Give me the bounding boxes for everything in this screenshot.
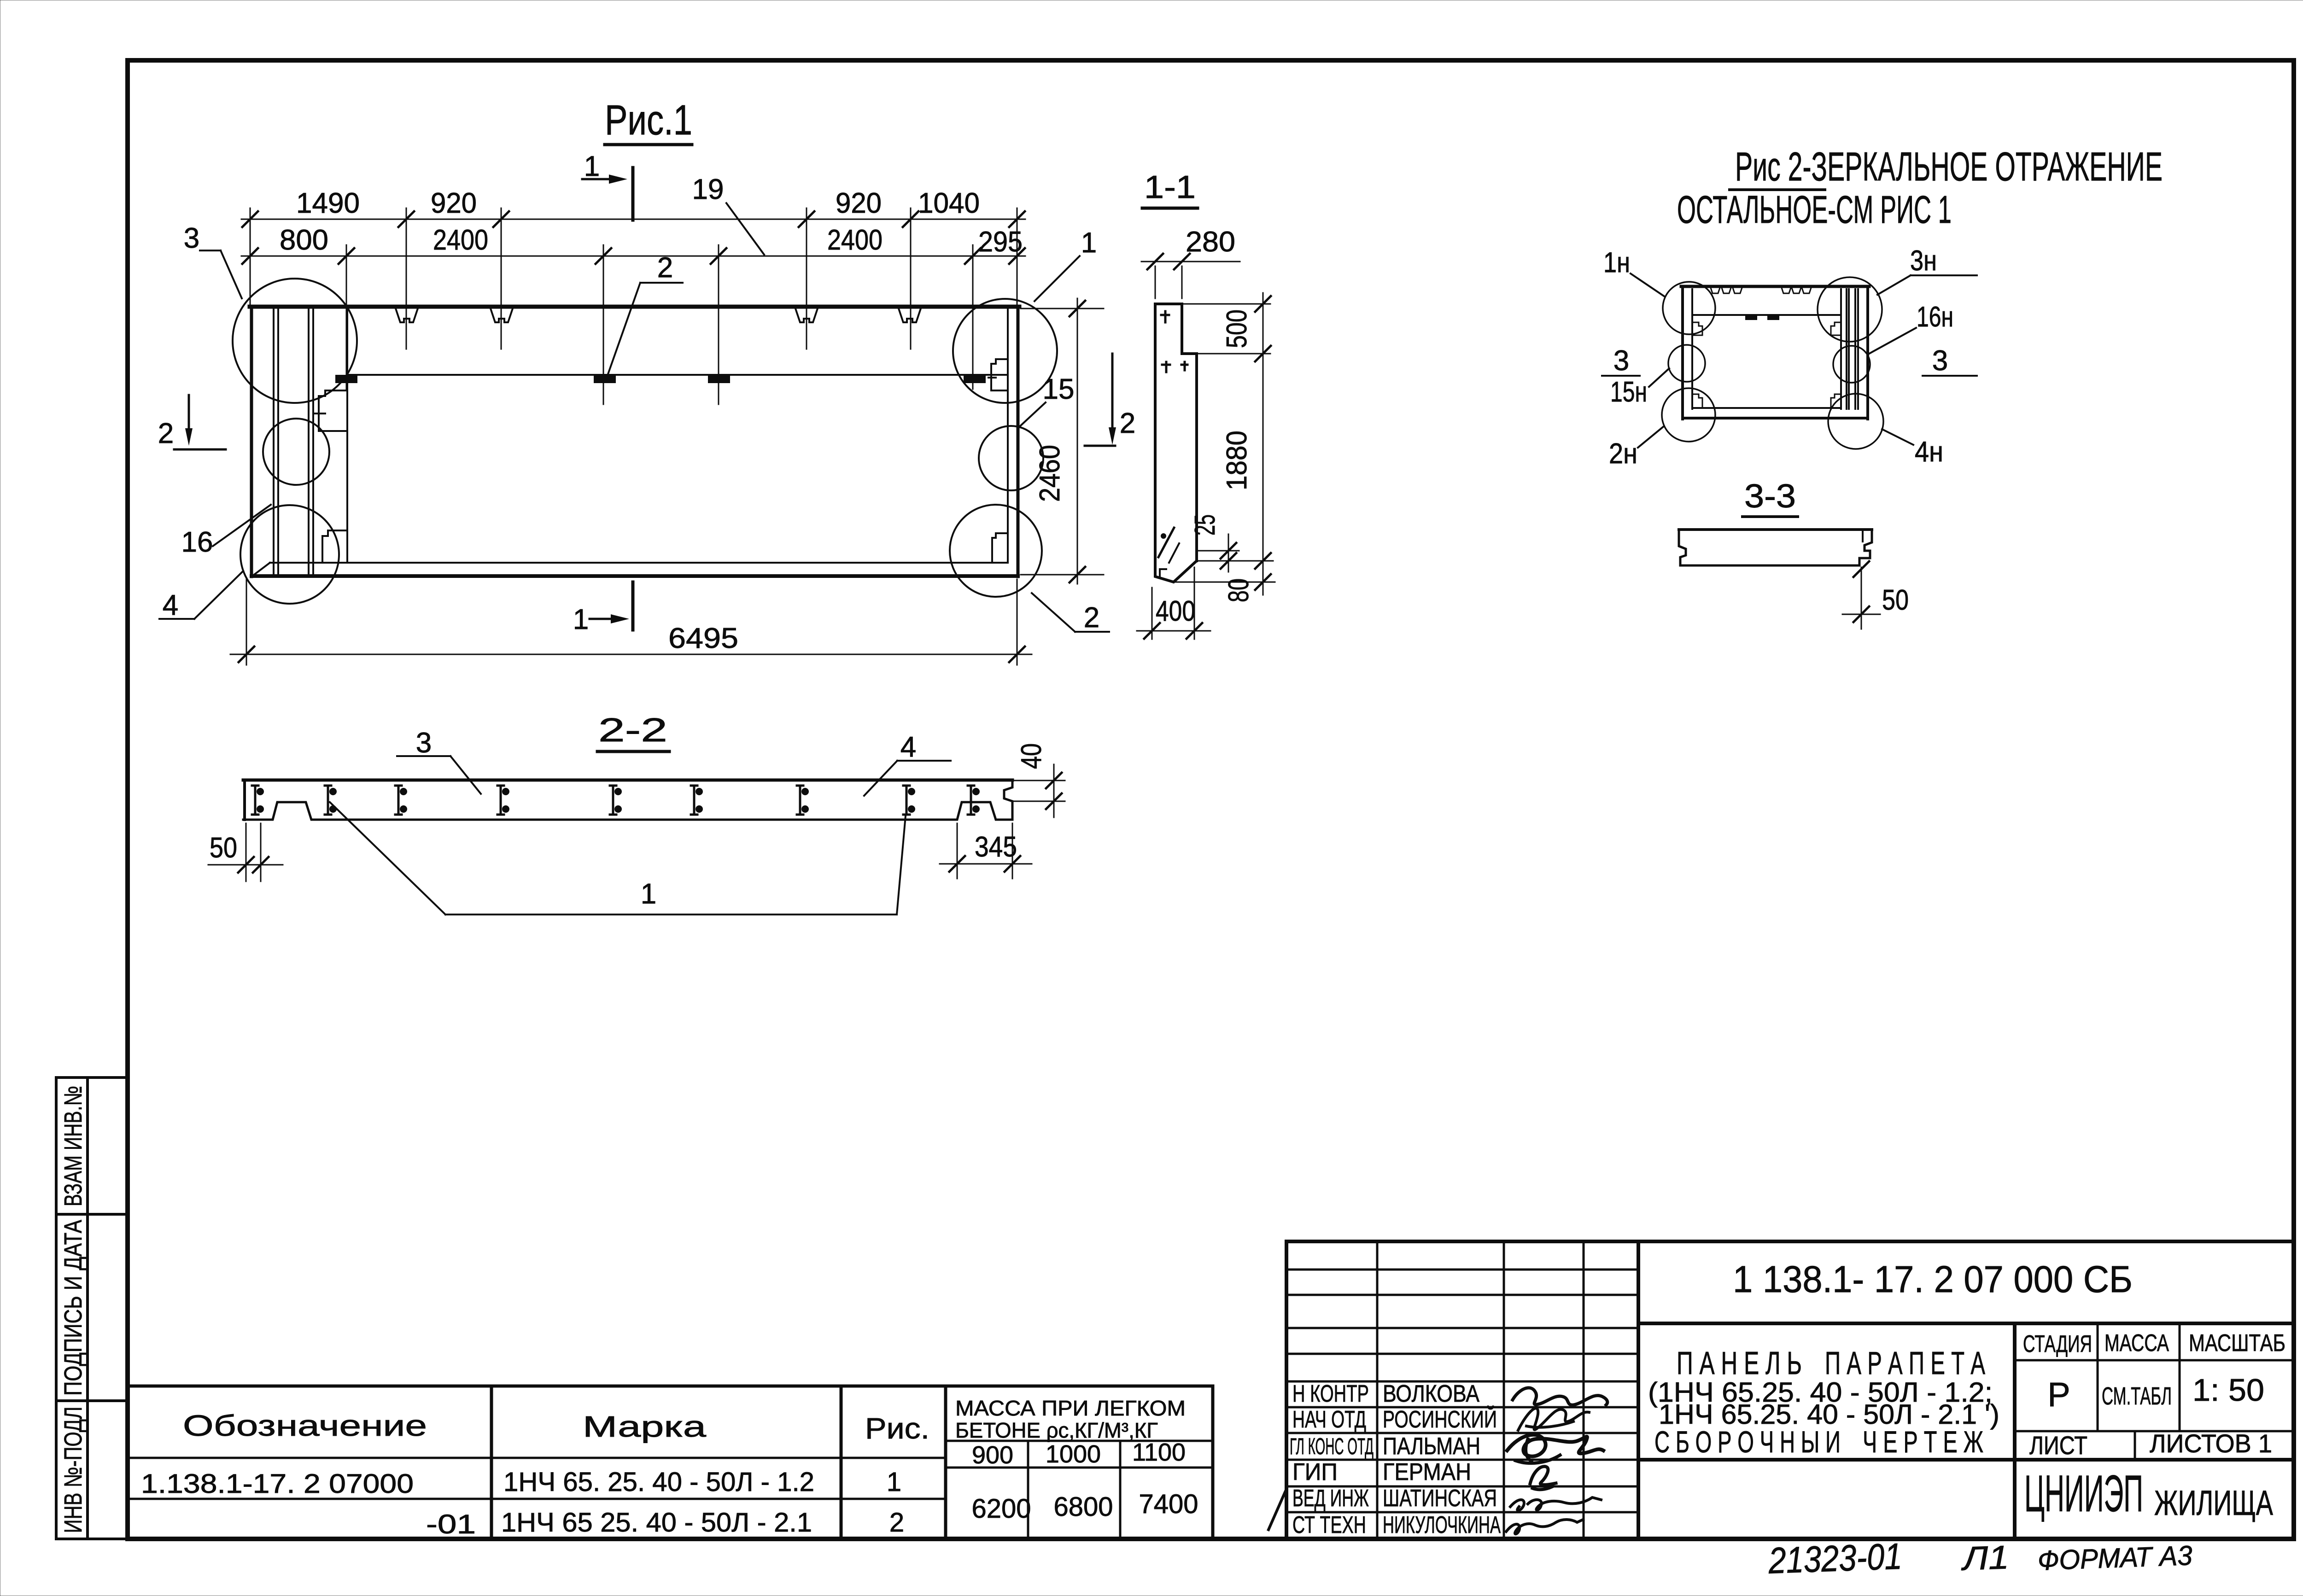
- section 1-1 profile outline: [1155, 304, 1197, 561]
- Fig.2 panel top edge: [1681, 285, 1869, 288]
- detail circle bottom-left: [240, 505, 339, 604]
- signature Волкова: [1513, 1388, 1607, 1405]
- svg-text:40: 40: [1016, 743, 1047, 769]
- svg-text:РОСИНСКИЙ: РОСИНСКИЙ: [1383, 1406, 1497, 1433]
- dim 345 (section 2-2): [957, 823, 958, 879]
- svg-text:ИНВ №-ПОДЛ: ИНВ №-ПОДЛ: [59, 1407, 87, 1533]
- dim 80: [1263, 561, 1264, 595]
- svg-text:2460: 2460: [1034, 445, 1066, 502]
- svg-text:1: 1: [887, 1467, 901, 1497]
- signature Шатинская: [1510, 1497, 1601, 1510]
- dim 50 (section 2-2): [245, 823, 247, 881]
- svg-text:ПАЛЬМАН: ПАЛЬМАН: [1383, 1433, 1480, 1460]
- svg-text:1-1: 1-1: [1144, 169, 1196, 205]
- dim 500: [1184, 303, 1270, 305]
- svg-text:НАЧ ОТД: НАЧ ОТД: [1292, 1406, 1366, 1433]
- lifting notch 4 on top edge: [899, 309, 921, 322]
- svg-text:ЛИСТ: ЛИСТ: [2029, 1431, 2087, 1460]
- Fig.2 notches on top edge: [1711, 288, 1811, 293]
- detail circle top-left: [233, 279, 357, 403]
- dim 50 (section 3-3): [1861, 567, 1862, 629]
- dim 25: [1198, 550, 1239, 552]
- svg-text:3: 3: [184, 222, 199, 254]
- detail circle top-right: [953, 299, 1057, 403]
- svg-text:ЖИЛИЩА: ЖИЛИЩА: [2154, 1484, 2273, 1523]
- svg-text:4: 4: [163, 589, 178, 621]
- svg-text:2: 2: [889, 1508, 904, 1538]
- panel left column outer edge: [250, 307, 253, 577]
- svg-text:1: 50: 1: 50: [2192, 1373, 2264, 1408]
- section 2-2 slab top edge: [243, 779, 1012, 782]
- svg-text:ЛИСТОВ 1: ЛИСТОВ 1: [2150, 1429, 2272, 1458]
- svg-text:2н: 2н: [1609, 438, 1637, 470]
- svg-text:ОСТАЛЬНОЕ-СМ РИС 1: ОСТАЛЬНОЕ-СМ РИС 1: [1677, 188, 1952, 231]
- extension lines: [250, 208, 1017, 404]
- svg-text:ВЕД ИНЖ: ВЕД ИНЖ: [1292, 1485, 1369, 1512]
- detail circle mid-left: [263, 419, 329, 485]
- svg-text:800: 800: [280, 224, 328, 256]
- svg-text:1НЧ 65. 25. 40 - 50Л - 1.2: 1НЧ 65. 25. 40 - 50Л - 1.2: [503, 1467, 814, 1497]
- embedded plate marks (black): [335, 375, 357, 383]
- svg-text:1: 1: [573, 604, 589, 635]
- upper dimension line row: [241, 219, 1025, 220]
- signature Росинский: [1518, 1408, 1589, 1430]
- lower dimension line row: [241, 256, 1025, 257]
- ticks lower row: [242, 248, 1025, 264]
- bottom anchor diagonal in section 1-1: [1158, 528, 1174, 557]
- overall dim 6495: [246, 579, 247, 665]
- svg-text:2: 2: [657, 252, 673, 284]
- svg-text:1: 1: [1081, 227, 1097, 259]
- Fig.2 beam inner line: [1692, 314, 1841, 316]
- svg-text:4: 4: [900, 731, 916, 763]
- svg-text:3: 3: [416, 727, 432, 759]
- svg-text:1100: 1100: [1132, 1439, 1186, 1466]
- section 2-2 slab left edge: [243, 780, 246, 820]
- lifting notch 3 on top edge: [795, 309, 818, 322]
- svg-text:ШАТИНСКАЯ: ШАТИНСКАЯ: [1383, 1485, 1497, 1512]
- svg-text:Рис 2-ЗЕРКАЛЬНОЕ ОТРАЖЕНИЕ: Рис 2-ЗЕРКАЛЬНОЕ ОТРАЖЕНИЕ: [1735, 144, 2163, 189]
- bottom-left specification table grid: [128, 1386, 1213, 1539]
- svg-text:15: 15: [1043, 373, 1075, 405]
- Fig.2 panel left column: [1681, 286, 1684, 419]
- svg-text:50: 50: [1882, 584, 1909, 616]
- svg-text:ГИП: ГИП: [1292, 1459, 1338, 1485]
- panel top edge: [250, 305, 1019, 309]
- height dim 2460: [1021, 308, 1104, 309]
- svg-text:ВОЛКОВА: ВОЛКОВА: [1383, 1380, 1479, 1407]
- anchor bracket left bottom: [322, 530, 346, 563]
- svg-text:6800: 6800: [1053, 1492, 1113, 1522]
- panel right column outer edge: [1017, 307, 1020, 577]
- svg-text:Обозначение: Обозначение: [183, 1409, 427, 1442]
- svg-text:2: 2: [1120, 408, 1135, 439]
- svg-text:С Б О Р О Ч Н Ы И: С Б О Р О Ч Н Ы И: [1654, 1425, 1841, 1459]
- svg-text:1: 1: [584, 151, 600, 182]
- svg-text:Н КОНТР: Н КОНТР: [1292, 1380, 1369, 1407]
- detail circle mid-right: [979, 426, 1043, 490]
- svg-text:345: 345: [975, 831, 1017, 863]
- panel right column inner line: [1007, 309, 1009, 563]
- svg-text:500: 500: [1221, 309, 1253, 348]
- svg-text:6200: 6200: [971, 1494, 1031, 1524]
- svg-text:П А Р А П Е Т А: П А Р А П Е Т А: [1825, 1345, 1985, 1381]
- slash mark left of title block: [1268, 1491, 1286, 1530]
- svg-text:ГЕРМАН: ГЕРМАН: [1383, 1459, 1471, 1485]
- Fig.2 brackets: [1692, 322, 1702, 335]
- svg-text:Рис.: Рис.: [865, 1412, 929, 1445]
- dim 1880: [1263, 354, 1264, 561]
- svg-text:295: 295: [978, 226, 1023, 258]
- svg-text:920: 920: [836, 187, 882, 219]
- svg-text:19: 19: [692, 174, 724, 205]
- anchor bracket right bottom: [992, 533, 1008, 563]
- svg-text:Л1: Л1: [1960, 1539, 2010, 1578]
- svg-text:280: 280: [1186, 226, 1235, 258]
- svg-text:П А Н Е Л Ь: П А Н Е Л Ь: [1677, 1345, 1802, 1381]
- svg-text:21323-01: 21323-01: [1767, 1536, 1903, 1581]
- svg-text:16: 16: [181, 526, 213, 558]
- svg-text:6495: 6495: [668, 623, 738, 654]
- svg-text:Р: Р: [2047, 1375, 2070, 1414]
- svg-text:2-2: 2-2: [598, 712, 667, 749]
- section 2-2 slab right end: [1004, 780, 1012, 820]
- svg-text:-01: -01: [426, 1509, 476, 1539]
- detail circle bottom-right: [950, 505, 1042, 597]
- top anchor hooks in section 1-1: [1161, 311, 1169, 322]
- Fig.2 detail circles: [1663, 282, 1715, 334]
- drip notch: [1160, 569, 1166, 577]
- svg-text:7400: 7400: [1139, 1489, 1198, 1519]
- svg-text:3: 3: [1932, 345, 1948, 377]
- svg-text:НИКУЛОЧКИНА: НИКУЛОЧКИНА: [1383, 1512, 1501, 1538]
- anchor bracket right top: [988, 359, 1008, 390]
- svg-text:15н: 15н: [1610, 376, 1647, 408]
- svg-text:ВЗАМ ИНВ.№: ВЗАМ ИНВ.№: [59, 1086, 87, 1206]
- svg-text:Рис.1: Рис.1: [605, 97, 692, 144]
- svg-text:Марка: Марка: [583, 1410, 707, 1443]
- bottom band inner line with left bevel: [270, 562, 1008, 564]
- svg-text:БЕТОНЕ ρс,КГ/М³,КГ: БЕТОНЕ ρс,КГ/М³,КГ: [955, 1418, 1158, 1442]
- svg-text:2400: 2400: [827, 224, 883, 256]
- signature Герман: [1530, 1467, 1556, 1490]
- lifting notch 1 on top edge: [396, 309, 418, 322]
- svg-text:16н: 16н: [1917, 301, 1953, 333]
- svg-text:1040: 1040: [918, 187, 980, 219]
- top beam inner line: [347, 374, 1008, 376]
- panel left column inner lines: [274, 309, 347, 575]
- svg-text:4н: 4н: [1915, 436, 1943, 468]
- section 2-2 slab bottom edge with key notches: [243, 802, 1012, 820]
- signature Никулочкина: [1506, 1520, 1583, 1534]
- svg-text:1490: 1490: [296, 187, 360, 219]
- svg-text:1000: 1000: [1046, 1440, 1101, 1468]
- ticks upper row: [242, 211, 1025, 227]
- svg-text:1н: 1н: [1603, 247, 1630, 279]
- lifting notch 2 on top edge: [491, 309, 513, 322]
- svg-text:400: 400: [1156, 595, 1195, 627]
- svg-text:МАССА ПРИ ЛЕГКОМ: МАССА ПРИ ЛЕГКОМ: [955, 1396, 1186, 1420]
- section 3-3 profile: [1679, 528, 1872, 531]
- svg-text:ЦНИИЭП: ЦНИИЭП: [2024, 1465, 2143, 1522]
- svg-text:1 138.1- 17. 2 07 000 СБ: 1 138.1- 17. 2 07 000 СБ: [1733, 1258, 2133, 1300]
- left margin stamp boxes: [56, 1078, 127, 1539]
- svg-text:1: 1: [641, 878, 656, 910]
- Fig.2 panel right column: [1841, 289, 1858, 409]
- svg-text:СМ.ТАБЛ: СМ.ТАБЛ: [2102, 1382, 2172, 1410]
- anchor bracket left top: [315, 390, 346, 431]
- svg-text:1.138.1-17. 2 07000: 1.138.1-17. 2 07000: [141, 1469, 414, 1499]
- svg-text:25: 25: [1189, 514, 1221, 536]
- svg-text:1НЧ 65 25. 40 - 50Л - 2.1: 1НЧ 65 25. 40 - 50Л - 2.1: [501, 1508, 812, 1538]
- Fig.2 embedded plates: [1745, 315, 1757, 320]
- dim 280: [1155, 266, 1156, 298]
- svg-text:ГЛ КОНС ОТД: ГЛ КОНС ОТД: [1290, 1433, 1374, 1459]
- svg-text:ФОРМАТ А3: ФОРМАТ А3: [2037, 1540, 2193, 1576]
- bottom band outer line: [251, 574, 1018, 578]
- svg-text:МАССА: МАССА: [2104, 1330, 2169, 1357]
- Fig.2 bottom band: [1692, 407, 1841, 409]
- svg-text:СТ ТЕХН: СТ ТЕХН: [1292, 1512, 1366, 1538]
- stirrup marks: [252, 786, 974, 815]
- title block grid: [1286, 1241, 2294, 1539]
- svg-text:3н: 3н: [1910, 245, 1937, 277]
- svg-text:920: 920: [431, 187, 477, 219]
- svg-text:80: 80: [1223, 578, 1255, 602]
- svg-text:СТАДИЯ: СТАДИЯ: [2023, 1331, 2092, 1357]
- svg-text:2: 2: [158, 418, 174, 449]
- dim 400: [1151, 588, 1153, 639]
- svg-text:1880: 1880: [1221, 431, 1253, 490]
- svg-text:50: 50: [210, 832, 237, 864]
- signature Пальман: [1507, 1435, 1603, 1456]
- svg-text:3: 3: [1613, 345, 1629, 377]
- svg-text:МАСШТАБ: МАСШТАБ: [2189, 1330, 2285, 1357]
- svg-text:2: 2: [1084, 602, 1099, 634]
- dim 40 (section 2-2): [1014, 780, 1065, 781]
- svg-text:ПОДПИСЬ И ДАТА: ПОДПИСЬ И ДАТА: [59, 1220, 87, 1396]
- svg-text:900: 900: [972, 1441, 1013, 1469]
- svg-text:3-3: 3-3: [1744, 478, 1796, 515]
- svg-text:Ч Е Р Т Е Ж: Ч Е Р Т Е Ж: [1863, 1425, 1983, 1459]
- svg-text:2400: 2400: [433, 224, 488, 256]
